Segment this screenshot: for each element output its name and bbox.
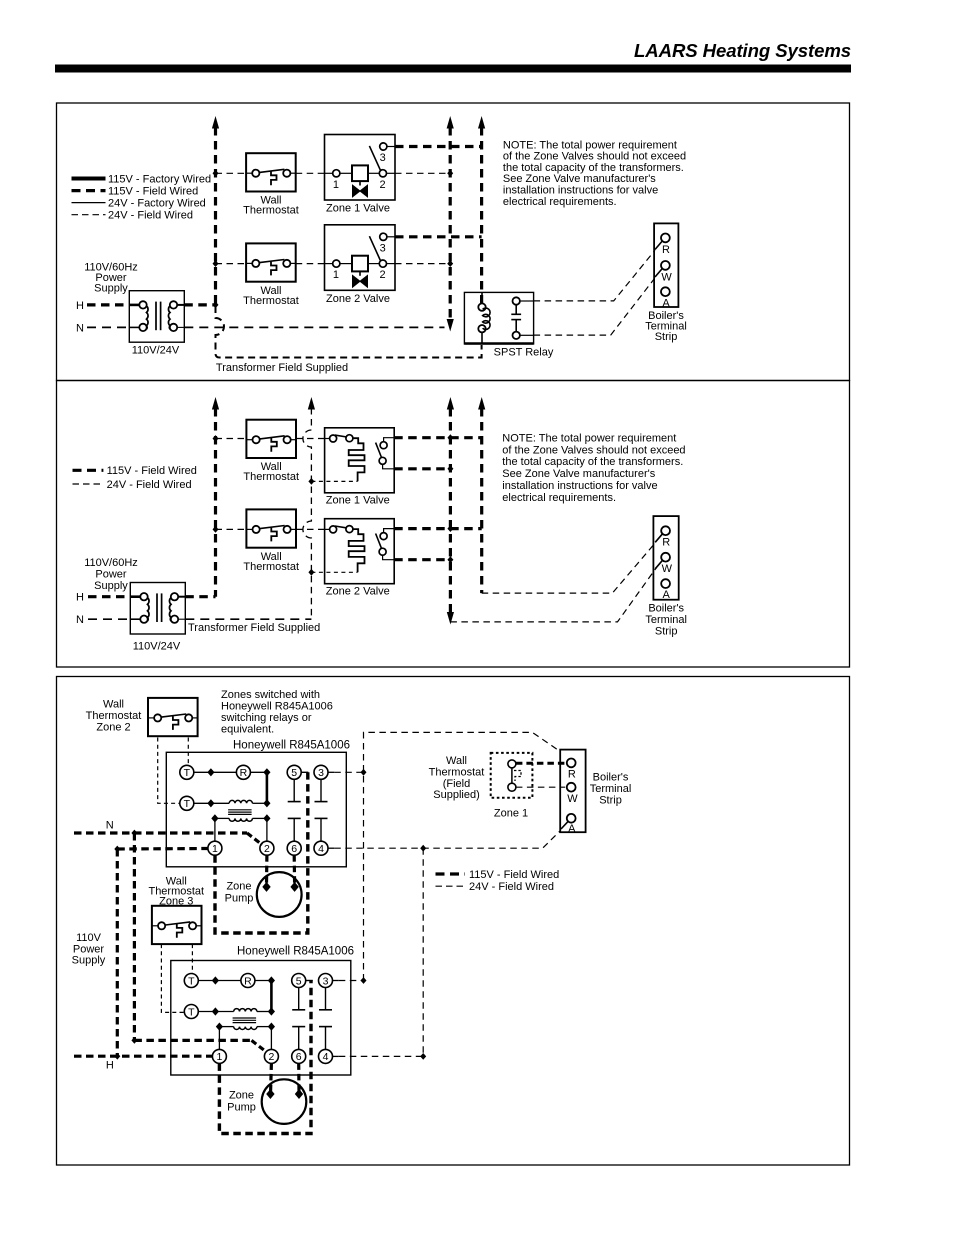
svg-text:Strip: Strip — [655, 626, 678, 638]
wire: terminal-4 trunk vertical — [422, 848, 424, 1056]
svg-text:See Zone Valve manufacturer's: See Zone Valve manufacturer's — [503, 173, 656, 185]
svg-text:H: H — [106, 1060, 114, 1072]
header rule bar — [55, 65, 851, 73]
svg-text:the total capacity of the tran: the total capacity of the transformers. — [503, 162, 684, 174]
legend text — [108, 173, 211, 221]
riser: 24V hot rail to thermostats (left) — [214, 127, 217, 305]
svg-text:LAARS Heating Systems: LAARS Heating Systems — [634, 40, 851, 61]
svg-text:N: N — [76, 614, 84, 626]
zone pump P2 — [262, 1079, 307, 1124]
svg-text:R: R — [568, 769, 576, 781]
wire: H feed to relay U1 terminal 1 — [117, 847, 208, 851]
wall thermostat (zone 1 row) — [246, 153, 296, 191]
node: N junction — [131, 830, 137, 837]
wire: zone2 end switch bottom to riser A — [394, 558, 450, 561]
svg-text:A: A — [662, 297, 670, 309]
relay U1 (upper Honeywell R845A1006) — [166, 752, 346, 867]
svg-text:Thermostat: Thermostat — [86, 710, 142, 722]
box 3 frame — [57, 677, 850, 1166]
svg-text:Thermostat: Thermostat — [243, 295, 299, 307]
svg-text:the total capacity of the tran: the total capacity of the transformers. — [502, 456, 683, 468]
wire: N / 24V common from transformer to riser A — [184, 326, 444, 328]
svg-text:115V - Field Wired: 115V - Field Wired — [469, 869, 559, 881]
pump loop U2 — [219, 981, 311, 1134]
legend sample: 24V field wired — [73, 483, 104, 485]
svg-text:W: W — [662, 563, 673, 575]
svg-text:N: N — [76, 322, 84, 334]
wire: relay U2 terminal 6 to pump — [297, 1063, 300, 1091]
boiler's terminal strip — [653, 516, 678, 601]
wire: zone3 thermostat right terminal to relay U2 T1 — [191, 944, 193, 973]
svg-text:Thermostat: Thermostat — [243, 561, 299, 573]
note text — [502, 433, 685, 504]
label: 110V/60Hz power supply — [84, 557, 138, 592]
svg-text:Transformer Field Supplied: Transformer Field Supplied — [216, 362, 348, 374]
svg-text:Zone 2 Valve: Zone 2 Valve — [326, 585, 390, 597]
svg-text:Honeywell R845A1006: Honeywell R845A1006 — [237, 946, 354, 958]
legend sample: 115V field wired — [72, 189, 106, 192]
wire: 24V trunk (terminal 3s) up and over to terminal R — [364, 732, 560, 980]
svg-text:Power: Power — [95, 568, 127, 580]
note text — [503, 139, 686, 208]
wire: zone2 valve terminal 2 return to riser A — [395, 263, 450, 265]
wire: riser B to terminal R — [482, 542, 656, 593]
node: junction at riser base — [213, 302, 219, 309]
wire: feed riser to zone1 thermostat — [216, 172, 247, 174]
svg-text:115V - Field Wired: 115V - Field Wired — [107, 465, 197, 477]
wire: zone1 valve end switch (terminal 3) to riser B — [395, 145, 482, 148]
svg-text:H: H — [76, 300, 84, 312]
svg-text:Thermostat: Thermostat — [429, 766, 485, 778]
boiler's terminal strip — [560, 750, 585, 835]
svg-text:Zone 1 Valve: Zone 1 Valve — [326, 203, 390, 215]
wire: N rail horizontal — [74, 831, 247, 834]
wire: zone2 thermostat left terminal to relay U1 T2 — [158, 738, 180, 804]
svg-text:115V - Field Wired: 115V - Field Wired — [108, 185, 198, 197]
riser B — [480, 408, 483, 593]
svg-text:SPST Relay: SPST Relay — [494, 347, 554, 359]
svg-text:110V/60Hz: 110V/60Hz — [84, 557, 138, 569]
riser B: end-switch rail to relay coil — [480, 127, 483, 303]
wire: zone3 thermostat left terminal to relay U2 T2 — [161, 944, 184, 1012]
svg-text:Boiler's: Boiler's — [648, 603, 684, 615]
wall thermostat zone 3 — [152, 906, 202, 944]
wire: N into transformer — [87, 326, 129, 328]
wire: zone2 thermostat to zone2 valve — [296, 528, 325, 530]
svg-text:24V - Field Wired: 24V - Field Wired — [469, 881, 554, 893]
riser 1: 24V hot rail to thermostats — [214, 408, 217, 597]
svg-text:Zone: Zone — [226, 880, 251, 892]
svg-text:Zone 1: Zone 1 — [494, 808, 528, 820]
svg-text:installation instructions for: installation instructions for valve — [502, 480, 657, 492]
svg-text:Honeywell R845A1006: Honeywell R845A1006 — [233, 740, 350, 752]
svg-text:Terminal: Terminal — [590, 783, 632, 795]
svg-text:110V/24V: 110V/24V — [132, 345, 180, 357]
wire: zone2 valve motor return to riser2 — [311, 571, 357, 573]
svg-text:of the Zone Valves should not: of the Zone Valves should not exceed — [502, 444, 685, 456]
wire: N into transformer — [88, 618, 130, 620]
svg-text:24V - Field Wired: 24V - Field Wired — [108, 210, 193, 222]
zone 1 valve — [325, 135, 396, 201]
transformer 110V/24V — [130, 583, 185, 635]
wire: zone2 thermostat right terminal to relay U1 T1 — [187, 738, 189, 766]
svg-text:Supply: Supply — [72, 955, 106, 967]
wire: field thermostat to terminal R — [516, 762, 565, 765]
svg-text:Pump: Pump — [227, 1101, 256, 1113]
wire: transformer-field-supplied drop with hop over N wire — [216, 306, 482, 358]
svg-text:equivalent.: equivalent. — [221, 724, 274, 736]
wire: zone1 thermostat to zone1 valve — [296, 172, 325, 174]
node: junction riser1 / zone2 feed — [213, 526, 219, 533]
relay U2 (lower Honeywell R845A1006) — [171, 961, 351, 1076]
box 2 frame — [57, 381, 850, 668]
wall thermostat zone 2 — [148, 698, 198, 736]
wire: zone1 end switch bottom to riser A — [394, 467, 450, 470]
svg-text:Strip: Strip — [655, 331, 678, 343]
legend sample: 115V factory wired — [72, 177, 106, 181]
svg-text:Honeywell R845A1006: Honeywell R845A1006 — [221, 701, 333, 713]
svg-text:switching relays or: switching relays or — [221, 712, 312, 724]
svg-text:R: R — [662, 244, 670, 256]
wire: zone2 end switch top to riser B — [394, 527, 482, 530]
svg-text:A: A — [568, 823, 576, 835]
svg-text:110V/24V: 110V/24V — [133, 641, 181, 653]
wire: N diagonal into relay U1 terminal 2 — [247, 833, 262, 845]
label: 110V power supply — [72, 932, 106, 967]
legend text — [469, 869, 559, 893]
svg-text:H: H — [76, 592, 84, 604]
svg-text:Terminal: Terminal — [645, 614, 687, 626]
wire: relay U1 terminal 3 to 24V trunk — [334, 771, 363, 773]
node: junction riser / zone2 feed — [213, 260, 219, 267]
zone 1 valve — [325, 428, 395, 493]
svg-text:Zone 1 Valve: Zone 1 Valve — [326, 495, 390, 507]
wire: 24V hot from transformer secondary to riser — [184, 303, 215, 306]
node: junction riser1 / zone1 feed — [213, 435, 219, 442]
zone pump P1 — [257, 872, 302, 917]
svg-text:Thermostat: Thermostat — [243, 471, 299, 483]
wire: H rail horizontal — [74, 1055, 212, 1058]
svg-text:A: A — [663, 589, 671, 601]
node: junction riser2 / zone2 motor return — [308, 569, 314, 576]
wire: zone1 valve terminal 2 return to riser A — [395, 172, 450, 174]
zone 2 valve — [325, 225, 396, 290]
svg-text:(Field: (Field — [443, 778, 471, 790]
wire: relay U1 terminal 4 across to terminal A — [334, 830, 561, 848]
wire: relay U1 terminal 6 to pump — [293, 855, 297, 884]
node: H junction — [114, 1053, 120, 1060]
svg-text:electrical requirements.: electrical requirements. — [502, 492, 616, 504]
wire: zone2 thermostat to zone2 valve — [296, 263, 325, 265]
legend sample: 24V field wired — [436, 885, 466, 887]
svg-text:Zone 2 Valve: Zone 2 Valve — [326, 293, 390, 305]
wire: relay U1 terminal 2 to pump — [265, 855, 269, 884]
wire: relay U2 terminal 3 to 24V trunk — [339, 980, 364, 982]
wire: relay contact to terminal R — [534, 250, 655, 301]
legend sample: 24V field wired — [72, 214, 106, 216]
wall thermostat zone 1 (field supplied, dotted) — [491, 753, 533, 798]
node: junction riser2 / zone1 motor return — [308, 478, 314, 485]
legend sample: 115V field wired — [436, 872, 466, 875]
wire: zone1 end switch top to riser B — [394, 436, 482, 439]
node: junction riser A / zone2 return — [447, 260, 453, 267]
wall thermostat (zone 1 row) — [246, 420, 296, 458]
svg-text:See Zone Valve manufacturer's: See Zone Valve manufacturer's — [502, 468, 655, 480]
wire: zone2 valve end switch (terminal 3) to riser B — [395, 235, 482, 238]
wire: riser A to terminal W — [450, 568, 656, 622]
svg-text:24V - Field Wired: 24V - Field Wired — [107, 479, 192, 491]
svg-text:Zone 3: Zone 3 — [159, 895, 193, 907]
zone 2 valve — [325, 519, 395, 584]
wire: relay U2 terminal 4 to junction — [339, 1055, 423, 1057]
wire: H 115V field wired into transformer — [87, 303, 129, 306]
svg-text:NOTE: The total power requirem: NOTE: The total power requirement — [502, 433, 676, 445]
svg-text:of the Zone Valves should not: of the Zone Valves should not exceed — [503, 151, 686, 163]
svg-text:NOTE: The total power requirem: NOTE: The total power requirement — [503, 139, 677, 151]
wire: relay contact to terminal W — [534, 279, 655, 336]
transformer 110V/24V — [129, 291, 184, 343]
svg-text:Supplied): Supplied) — [433, 789, 479, 801]
riser 2: 24V common rail with hops over thermostat wires — [303, 408, 312, 619]
svg-text:Supply: Supply — [94, 282, 128, 294]
wire: N rail down left side — [133, 833, 136, 1040]
svg-text:Supply: Supply — [94, 580, 128, 592]
svg-text:Zones switched with: Zones switched with — [221, 689, 320, 701]
wire: 24V hot from secondary to riser 1 — [185, 595, 215, 598]
box 1 frame — [57, 103, 850, 381]
svg-text:Transformer Field Supplied: Transformer Field Supplied — [188, 622, 320, 634]
boiler's terminal strip — [654, 223, 678, 309]
svg-text:115V - Factory Wired: 115V - Factory Wired — [108, 173, 211, 185]
svg-text:R: R — [662, 537, 670, 549]
wire: riser1 to zone2 thermostat — [216, 528, 247, 530]
note: zones switched with Honeywell — [221, 689, 333, 736]
svg-text:W: W — [661, 271, 672, 283]
svg-text:installation instructions for: installation instructions for valve — [503, 185, 658, 197]
svg-text:110V: 110V — [76, 932, 102, 944]
svg-text:W: W — [567, 793, 578, 805]
node: corner to lower relay N feed — [131, 1037, 137, 1044]
svg-text:Thermostat: Thermostat — [243, 205, 299, 217]
wire: N diagonal into relay U2 terminal 2 — [252, 1040, 267, 1052]
wire: field thermostat to terminal W — [516, 786, 565, 788]
legend sample: 115V field wired — [73, 469, 104, 472]
label: 110V/60Hz power supply — [84, 262, 138, 295]
svg-text:Zone 2: Zone 2 — [96, 721, 130, 733]
wire: N feed to relay U2 — [134, 1039, 251, 1042]
wire: H 115V field wired into transformer — [88, 595, 130, 598]
svg-text:Power: Power — [73, 943, 105, 955]
wire: H rail down left side — [116, 849, 119, 1056]
wire: N / 24V common from secondary to riser 2 — [185, 618, 311, 620]
legend text — [107, 465, 197, 491]
riser A: 24V common rail — [449, 127, 452, 322]
wire: riser1 to zone1 thermostat — [216, 438, 247, 440]
svg-text:Pump: Pump — [225, 892, 254, 904]
node: H branch junction — [114, 846, 120, 853]
riser A — [449, 408, 452, 615]
wire: relay U2 terminal 2 to pump — [269, 1063, 273, 1091]
wall thermostat (zone 2 row) — [246, 509, 296, 547]
svg-text:Zone: Zone — [229, 1089, 254, 1101]
SPST relay — [464, 292, 533, 344]
pump loop U1: terminal 1 down, across, up to terminal 5 — [215, 772, 308, 933]
svg-text:Wall: Wall — [446, 755, 467, 767]
legend sample: 24V factory wired — [72, 202, 106, 204]
node: junctions on riser A — [447, 434, 453, 441]
svg-text:Boiler's: Boiler's — [593, 772, 629, 784]
wire: zone1 valve motor return to riser2 — [311, 480, 357, 482]
wire: zone1 thermostat to zone1 valve — [296, 438, 325, 440]
svg-text:Wall: Wall — [103, 699, 124, 711]
wire: feed riser to zone2 thermostat — [216, 263, 247, 265]
svg-text:Strip: Strip — [599, 795, 622, 807]
svg-text:electrical requirements.: electrical requirements. — [503, 196, 617, 208]
node: junction riser A / zone1 return — [447, 170, 453, 177]
node: junction riser / zone1 feed — [213, 170, 219, 177]
svg-text:24V - Factory Wired: 24V - Factory Wired — [108, 197, 206, 209]
wall thermostat (zone 2 row) — [246, 243, 296, 281]
svg-text:N: N — [106, 820, 114, 832]
